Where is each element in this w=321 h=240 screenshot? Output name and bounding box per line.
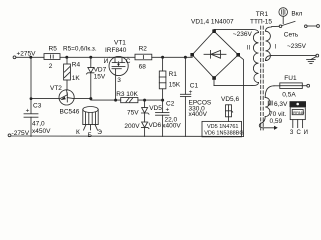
- svg-text:x450V: x450V: [32, 128, 51, 135]
- svg-text:3: 3: [117, 77, 121, 84]
- svg-text:R5: R5: [49, 46, 58, 53]
- svg-text:VT2: VT2: [50, 85, 62, 92]
- svg-text:2: 2: [49, 63, 53, 70]
- svg-text:+275V: +275V: [17, 51, 37, 58]
- svg-text:0,59: 0,59: [270, 118, 283, 125]
- svg-text:IRF840: IRF840: [293, 111, 305, 115]
- svg-text:VT1: VT1: [114, 40, 126, 47]
- svg-text:BC546: BC546: [60, 108, 80, 115]
- svg-text:VD7: VD7: [94, 67, 107, 74]
- svg-text:15V: 15V: [94, 74, 106, 81]
- svg-text:0,5A: 0,5A: [282, 91, 296, 98]
- svg-text:С: С: [297, 130, 302, 136]
- svg-text:VD5: VD5: [149, 105, 162, 112]
- svg-text:R1: R1: [169, 71, 178, 78]
- svg-text:+: +: [189, 89, 193, 96]
- svg-text:C3: C3: [33, 103, 42, 110]
- svg-text:~235V: ~235V: [287, 43, 307, 50]
- svg-text:200V: 200V: [124, 123, 140, 130]
- svg-text:TR1: TR1: [256, 11, 269, 18]
- svg-text:68: 68: [139, 63, 147, 70]
- svg-text:VD5,6: VD5,6: [221, 96, 239, 103]
- svg-text:x400V: x400V: [189, 111, 208, 118]
- svg-text:VD6: VD6: [149, 122, 162, 129]
- svg-text:I: I: [275, 45, 277, 51]
- svg-text:-275V: -275V: [12, 130, 30, 137]
- svg-text:К: К: [76, 129, 80, 136]
- svg-text:+: +: [26, 108, 30, 115]
- svg-text:VD6 1N5388BG: VD6 1N5388BG: [204, 131, 243, 137]
- svg-text:6,3V: 6,3V: [274, 101, 288, 108]
- svg-text:Э: Э: [97, 129, 102, 136]
- svg-text:R4: R4: [72, 61, 81, 68]
- svg-text:З: З: [290, 130, 294, 136]
- svg-text:R3 10K: R3 10K: [116, 91, 138, 98]
- svg-text:x400V: x400V: [162, 122, 181, 129]
- svg-text:Вкл: Вкл: [291, 11, 302, 18]
- svg-text:IRF840: IRF840: [105, 47, 127, 54]
- svg-text:1K: 1K: [72, 75, 81, 82]
- svg-text:+: +: [166, 106, 170, 113]
- svg-text:15K: 15K: [169, 81, 181, 88]
- svg-text:II: II: [247, 46, 251, 52]
- svg-text:R5=0,6/Iк.з.: R5=0,6/Iк.з.: [63, 46, 97, 53]
- svg-text:75V: 75V: [127, 109, 139, 116]
- svg-text:Сеть: Сеть: [284, 31, 299, 38]
- svg-text:~236V: ~236V: [233, 31, 253, 38]
- svg-text:VD5 1N4761: VD5 1N4761: [207, 124, 239, 130]
- svg-text:И: И: [104, 58, 109, 65]
- svg-text:FU1: FU1: [284, 75, 297, 82]
- svg-text:47,0: 47,0: [32, 121, 45, 128]
- svg-text:Б: Б: [88, 132, 92, 139]
- svg-text:C: C: [126, 58, 131, 65]
- svg-text:ТТП-15: ТТП-15: [250, 18, 272, 25]
- svg-text:70 vit.: 70 vit.: [269, 111, 287, 118]
- svg-text:R2: R2: [139, 46, 148, 53]
- svg-text:VD1,4 1N4007: VD1,4 1N4007: [191, 18, 234, 25]
- svg-text:И: И: [304, 130, 308, 136]
